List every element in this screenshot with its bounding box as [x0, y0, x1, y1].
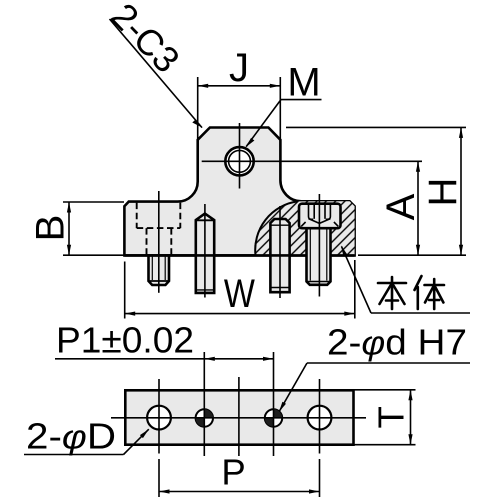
dimension P	[159, 459, 320, 497]
svg-text:J: J	[229, 46, 249, 90]
plate hole d2 filled	[265, 409, 282, 426]
svg-text:P1±0.02: P1±0.02	[56, 320, 194, 361]
centerlines front view	[159, 123, 422, 298]
svg-text:T: T	[371, 406, 412, 428]
plate hole D1	[147, 406, 171, 430]
body outline	[124, 128, 354, 256]
svg-text:W: W	[224, 272, 255, 316]
svg-text:H: H	[421, 178, 465, 207]
dimension H	[286, 127, 466, 255]
bottom plate	[125, 390, 353, 444]
plate hole d1 filled	[196, 409, 213, 426]
dimension B	[63, 202, 124, 255]
left stud	[149, 255, 170, 285]
dimension W	[125, 260, 355, 319]
label hontai	[378, 276, 444, 309]
dimension T	[354, 390, 416, 445]
svg-text:2-C3: 2-C3	[103, 0, 187, 81]
dimension A	[417, 161, 419, 255]
svg-text:A: A	[379, 193, 423, 220]
svg-text:M: M	[287, 61, 320, 105]
svg-text:2-φD: 2-φD	[26, 416, 116, 457]
section hatch region	[255, 201, 354, 255]
right dowel pin	[270, 219, 289, 292]
plate hole D2	[308, 406, 332, 430]
center pin	[196, 214, 214, 293]
screw U1 shaft	[307, 228, 331, 285]
svg-text:P: P	[221, 452, 245, 493]
plate centerlines	[111, 352, 366, 456]
section boundary arc	[255, 201, 297, 255]
hole M circle	[225, 147, 253, 175]
svg-text:2-φd H7: 2-φd H7	[327, 322, 467, 363]
dimension J	[198, 77, 281, 140]
svg-text:B: B	[29, 215, 73, 242]
hidden counterbore dashed	[137, 203, 181, 255]
bottom edge over components	[124, 254, 306, 257]
screw U1 head	[299, 204, 341, 229]
